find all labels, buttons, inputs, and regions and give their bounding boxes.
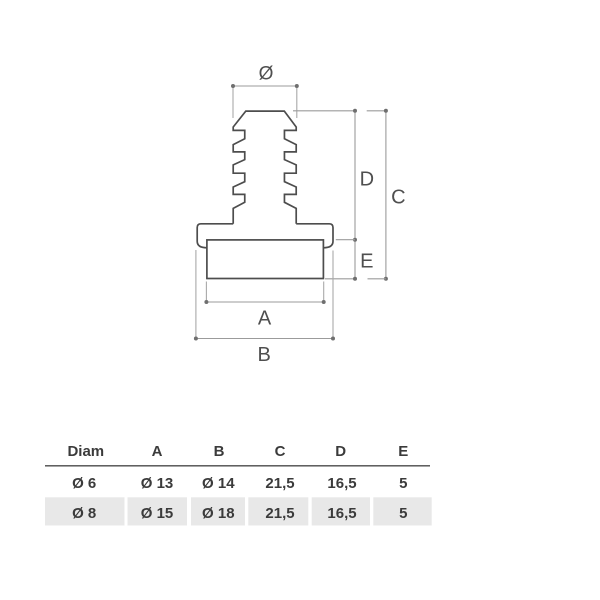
- E bottom extension lines: [325, 278, 386, 280]
- dimension C dots: [384, 109, 388, 113]
- svg-text:Ø 15: Ø 15: [141, 505, 174, 522]
- dimension Ø extension lines: [233, 86, 297, 118]
- svg-text:Ø: Ø: [259, 64, 274, 85]
- dimension B dots: [194, 337, 198, 341]
- svg-text:16,5: 16,5: [327, 505, 356, 522]
- dimension D dots: [353, 109, 357, 113]
- cap body rectangle: [207, 240, 324, 279]
- flange left lip: [197, 224, 233, 248]
- dimension B line: [196, 338, 333, 340]
- svg-text:A: A: [152, 443, 163, 460]
- dimension A line: [206, 301, 323, 303]
- svg-text:Ø 13: Ø 13: [141, 475, 174, 492]
- svg-text:5: 5: [399, 505, 407, 522]
- table row2 grey cells: [45, 497, 432, 525]
- dimension D line: [354, 111, 356, 279]
- svg-text:5: 5: [399, 475, 407, 492]
- svg-text:21,5: 21,5: [265, 475, 294, 492]
- svg-text:E: E: [360, 251, 373, 273]
- svg-text:B: B: [258, 344, 271, 366]
- dimension B extension lines: [196, 250, 333, 339]
- svg-text:21,5: 21,5: [265, 505, 294, 522]
- table row 2: [72, 505, 407, 522]
- svg-text:B: B: [214, 443, 225, 460]
- dimension Ø line: [233, 85, 297, 87]
- svg-text:Diam: Diam: [67, 443, 104, 460]
- table row 1: [72, 475, 407, 492]
- svg-text:Ø 8: Ø 8: [72, 505, 96, 522]
- table header rule: [45, 465, 430, 467]
- dimension E bottom dot: [353, 277, 357, 281]
- svg-text:A: A: [258, 308, 272, 330]
- svg-text:D: D: [335, 443, 346, 460]
- plug stem ribbed outline: [233, 111, 296, 224]
- svg-text:16,5: 16,5: [327, 475, 356, 492]
- svg-text:C: C: [275, 443, 286, 460]
- dimension Ø end dots: [231, 84, 235, 88]
- svg-text:C: C: [391, 187, 405, 209]
- svg-text:E: E: [398, 443, 408, 460]
- E top extension line: [336, 239, 355, 241]
- flange right lip: [296, 224, 333, 248]
- dimension C line: [385, 111, 387, 279]
- svg-text:Ø 14: Ø 14: [202, 475, 235, 492]
- svg-text:Ø 6: Ø 6: [72, 475, 96, 492]
- table header row: [67, 443, 408, 460]
- top extension line to D and C: [293, 110, 386, 112]
- dimension A dots: [204, 300, 208, 304]
- dimension A extension lines: [206, 282, 323, 303]
- svg-text:Ø 18: Ø 18: [202, 505, 235, 522]
- svg-text:D: D: [360, 168, 374, 190]
